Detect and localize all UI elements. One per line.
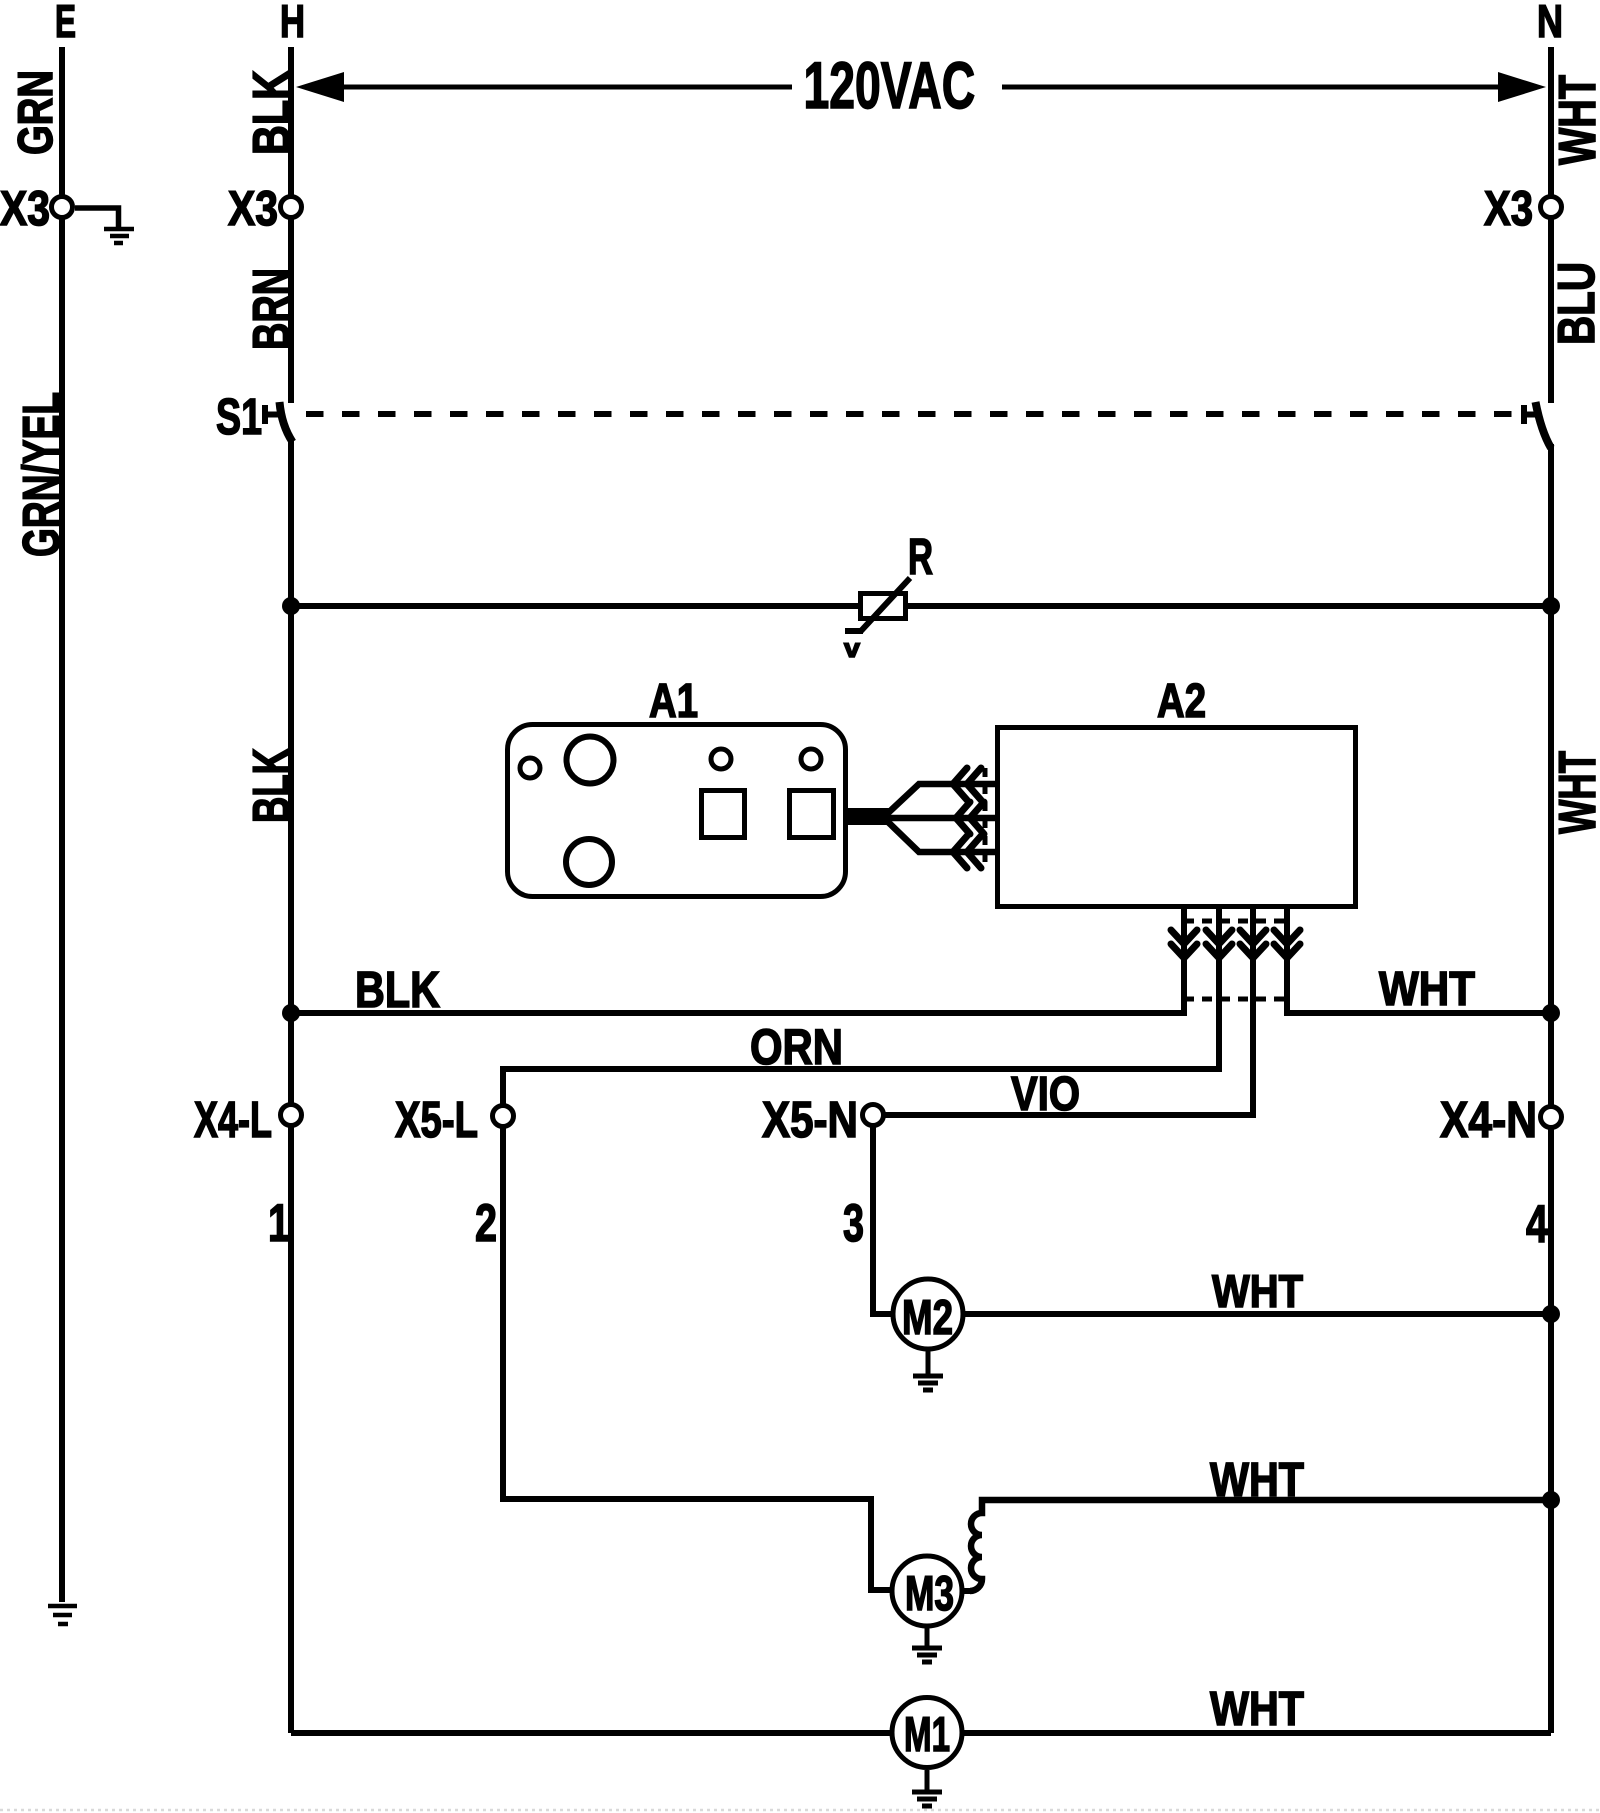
wire ORN row (503, 960, 1219, 1105)
svg-text:WHT: WHT (1210, 1683, 1304, 1736)
switch S1 left blade (280, 402, 293, 442)
wire X5-L down to M3 run (503, 1127, 891, 1590)
wire VIO row (884, 960, 1253, 1115)
A1 button square right (790, 791, 834, 838)
junction dot N x WHT row (1542, 1004, 1560, 1022)
svg-text:WHT: WHT (1549, 75, 1600, 165)
node H rail upper (288, 47, 294, 403)
svg-text:X3: X3 (0, 182, 50, 236)
ground symbol below M1 (912, 1770, 942, 1806)
svg-text:BLU: BLU (1548, 262, 1600, 345)
chevron arrows on upper wire (953, 768, 981, 800)
inductor coil of M3 (970, 1500, 1551, 1591)
svg-text:X4-L: X4-L (194, 1091, 272, 1148)
junction dot N x M3 WHT row (1542, 1491, 1560, 1509)
switch S1 dashed linkage (306, 411, 1514, 417)
svg-text:A1: A1 (649, 675, 698, 728)
svg-text:M2: M2 (902, 1291, 953, 1345)
wire M3 right to coil (963, 1588, 970, 1594)
svg-text:M3: M3 (905, 1567, 954, 1621)
switch S1 left contact tick (265, 405, 281, 424)
arrowhead left of 120VAC (296, 72, 344, 102)
svg-text:E: E (55, 0, 76, 47)
wire X5-N down to M2 (873, 1127, 891, 1314)
terminal X5-N (863, 1105, 884, 1126)
wire resistor row left (291, 603, 858, 609)
svg-text:BLK: BLK (243, 70, 301, 155)
svg-text:BLK: BLK (243, 748, 301, 823)
svg-text:S1: S1 (216, 388, 262, 445)
wire M1 row right (964, 1730, 1551, 1736)
svg-text:ORN: ORN (750, 1019, 843, 1075)
svg-text:GRN: GRN (9, 70, 63, 155)
terminal X3 on N (1541, 197, 1562, 218)
svg-text:WHT: WHT (1210, 1454, 1304, 1507)
svg-text:X3: X3 (1484, 182, 1533, 236)
resistor R body (845, 578, 910, 632)
ground symbol below M3 (912, 1628, 942, 1662)
wire A1-A2 upper (887, 784, 995, 814)
down chevrons pin 2 (1206, 930, 1232, 958)
A1 hole small mid (711, 749, 731, 769)
wire A1-A2 middle (887, 815, 995, 822)
ground symbol at X3-E (104, 229, 134, 243)
svg-text:M1: M1 (904, 1708, 950, 1762)
svg-text:X5-N: X5-N (762, 1091, 858, 1148)
wire X3-E to earth (75, 208, 119, 228)
resistor R variable diagonal (845, 578, 910, 632)
svg-text:VIO: VIO (1011, 1068, 1080, 1121)
arrowhead right of 120VAC (1498, 72, 1546, 102)
controller A1 box (508, 725, 846, 897)
dashed strain line at A2 left (983, 768, 988, 868)
controller A2 box (998, 728, 1356, 907)
A1 knob big bottom (566, 839, 612, 885)
A1 ribbon cable stub (848, 808, 889, 825)
A1 button square left (702, 791, 745, 838)
terminal X5-L (493, 1106, 514, 1127)
motor M3 circle (892, 1556, 962, 1626)
dashed tie upper below A2 (1184, 919, 1287, 924)
svg-text:X4-N: X4-N (1440, 1091, 1537, 1148)
svg-text:v: v (844, 633, 861, 663)
junction dot N x M2 row (1542, 1305, 1560, 1323)
svg-text:A2: A2 (1157, 675, 1206, 728)
dashed tie lower below A2 (1184, 997, 1287, 1002)
svg-text:N: N (1537, 0, 1563, 47)
switch S1 right blade (1536, 402, 1552, 448)
ground symbol at E rail bottom (48, 1606, 77, 1624)
A2 pin 2 drop (1216, 906, 1222, 962)
svg-text:4: 4 (1526, 1195, 1548, 1254)
motor M1 circle (892, 1698, 962, 1768)
svg-text:X3: X3 (228, 182, 278, 236)
wire 120VAC arrow right segment (1002, 85, 1500, 90)
A1 mount hole small left (520, 758, 540, 778)
node N rail upper (1548, 47, 1554, 403)
terminal X3 on E (52, 197, 73, 218)
terminal X4-N (1541, 1107, 1562, 1128)
node E rail (59, 47, 65, 1602)
svg-text:GRN/YEL: GRN/YEL (13, 392, 71, 557)
svg-text:X5-L: X5-L (395, 1091, 478, 1148)
wire 120VAC arrow left segment (342, 85, 792, 90)
junction dot N x resistor row (1542, 597, 1560, 615)
wire A1-A2 lower (887, 821, 995, 852)
svg-text:2: 2 (475, 1194, 497, 1253)
chevron arrows on lower wire (953, 836, 981, 868)
wire M2 to N rail (965, 1311, 1551, 1317)
wire resistor row right (908, 603, 1551, 609)
down chevrons pin 3 (1240, 930, 1266, 958)
wire WHT bottom row (1287, 960, 1551, 1013)
A2 pin 4 drop (1284, 906, 1290, 962)
ground symbol below M2 (913, 1351, 943, 1390)
svg-text:BLK: BLK (355, 961, 440, 1018)
svg-text:WHT: WHT (1212, 1265, 1303, 1317)
svg-text:WHT: WHT (1379, 963, 1475, 1016)
terminal X4-L (281, 1105, 302, 1126)
A2 pin 3 drop (1250, 906, 1256, 962)
A1 knob big top (567, 737, 614, 784)
junction dot H x resistor row (282, 597, 300, 615)
svg-text:H: H (280, 0, 305, 47)
wire M1 row left (291, 1730, 890, 1736)
svg-text:1: 1 (268, 1194, 290, 1253)
switch S1 right contact tick (1524, 405, 1537, 424)
svg-text:R: R (908, 528, 933, 585)
down chevrons pin 1 (1171, 930, 1197, 958)
down chevrons pin 4 (1274, 930, 1300, 958)
svg-text:120VAC: 120VAC (804, 48, 976, 122)
terminal X3 on H (281, 197, 302, 218)
faint page edge dots at bottom (0, 1809, 1600, 1812)
A2 pin 1 drop (1181, 906, 1187, 962)
wire H rail lower (288, 441, 294, 1733)
svg-text:3: 3 (843, 1194, 864, 1253)
wire N rail lower (1548, 444, 1554, 1733)
A1 hole small right (801, 749, 821, 769)
junction dot H x BLK row (282, 1004, 300, 1022)
svg-text:BRN: BRN (243, 268, 301, 350)
chevron arrows on middle wire (956, 802, 984, 834)
wire BLK bottom row (291, 960, 1184, 1013)
svg-text:WHT: WHT (1549, 751, 1600, 834)
motor M2 circle (893, 1279, 963, 1349)
